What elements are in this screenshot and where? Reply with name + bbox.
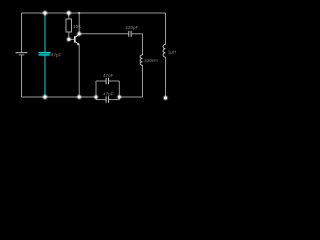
svg-text:220pF: 220pF bbox=[125, 25, 138, 30]
wire collector to 220pF bbox=[79, 33, 128, 35]
node L2 bottom terminal bbox=[164, 96, 167, 99]
transistor Q1 bbox=[75, 34, 79, 45]
wire emitter vertical bbox=[78, 45, 80, 97]
wire cap-box right edge bbox=[118, 81, 120, 100]
wire bottom rail bbox=[22, 96, 97, 98]
inductor L2 1uH bbox=[163, 45, 165, 58]
wire resistor top lead bbox=[68, 13, 70, 19]
wire right vertical lower bbox=[165, 57, 167, 98]
inductor L1 220nH bbox=[140, 55, 142, 65]
node cap-box right bbox=[118, 96, 121, 99]
battery V1 bbox=[16, 52, 28, 54]
node top rail / C1 bbox=[43, 11, 46, 14]
svg-text:220nH: 220nH bbox=[144, 58, 158, 63]
wire cap-box left edge bbox=[95, 81, 97, 100]
wire cap-box top edge right bbox=[109, 80, 120, 82]
wire tank bottom horizontal bbox=[119, 96, 142, 98]
capacitor C4 47pF (bottom) bbox=[105, 96, 107, 102]
wire 220nH branch upper bbox=[142, 34, 144, 55]
node dot glows bbox=[42, 10, 168, 101]
wire resistor bottom lead to base node bbox=[68, 32, 70, 39]
wire top rail bbox=[22, 12, 166, 14]
wire left vertical (battery branch bottom) bbox=[21, 55, 23, 97]
node base bbox=[67, 38, 70, 41]
resistor R1 10K body bbox=[66, 19, 72, 32]
wire cap-box bottom edge left bbox=[96, 99, 106, 101]
labels bbox=[51, 24, 177, 97]
wire left vertical (battery branch top) bbox=[21, 13, 23, 52]
wire right vertical upper bbox=[165, 13, 167, 45]
svg-text:10K: 10K bbox=[73, 24, 82, 29]
svg-text:47µF: 47µF bbox=[51, 53, 62, 58]
wire base bbox=[69, 38, 75, 40]
wire cap-box top edge left bbox=[96, 80, 106, 82]
node top rail / R1 bbox=[67, 11, 70, 14]
svg-text:47pF: 47pF bbox=[103, 91, 114, 96]
capacitor C3 47pF (top) bbox=[105, 78, 107, 84]
node top rail / collector wire bbox=[78, 12, 80, 14]
svg-text:47pF: 47pF bbox=[103, 73, 114, 78]
transistor Q1 emitter arrow bbox=[78, 43, 80, 45]
capacitor C2 220pF bbox=[128, 31, 130, 37]
wire 220pF to corner bbox=[131, 33, 142, 35]
svg-text:1µH: 1µH bbox=[168, 50, 177, 55]
node bottom rail / C1 bbox=[43, 95, 46, 98]
node dots bbox=[43, 11, 167, 99]
wire 220nH branch lower bbox=[142, 65, 144, 97]
node cap-box left bbox=[95, 96, 98, 99]
node collector bbox=[78, 32, 81, 35]
node bottom rail / emitter bbox=[78, 95, 81, 98]
wire cap-box bottom edge right bbox=[109, 99, 120, 101]
wire collector vertical bbox=[78, 13, 80, 34]
capacitor C1 47uF (selected, cyan) bbox=[39, 13, 51, 97]
